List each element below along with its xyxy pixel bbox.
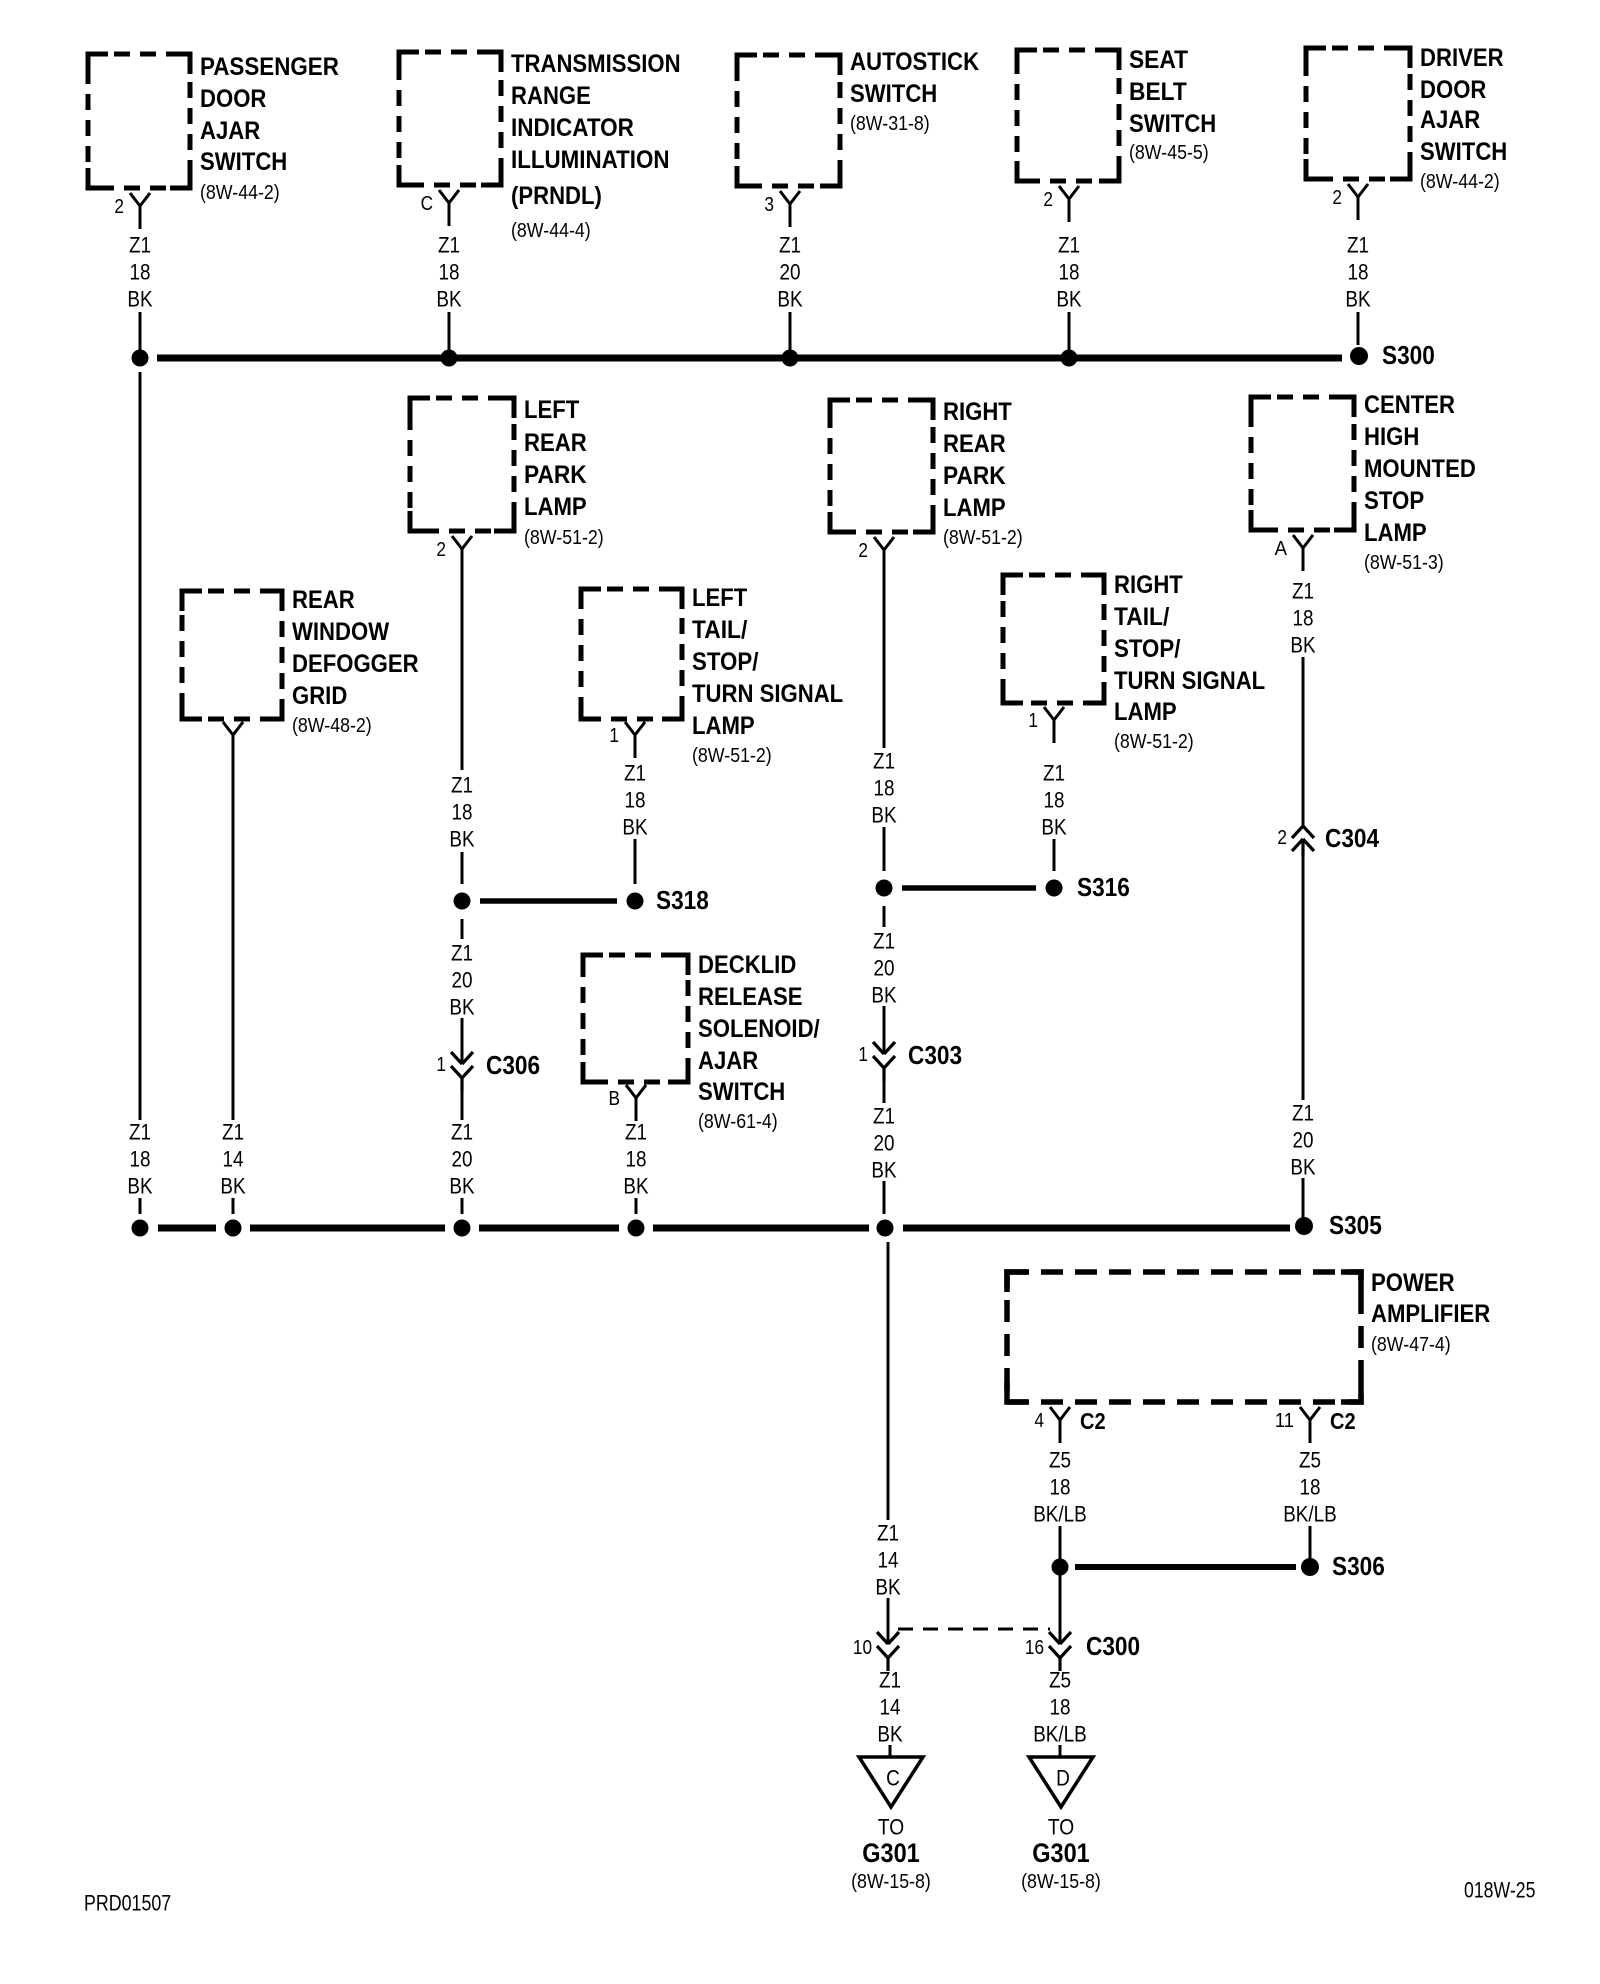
svg-text:AJAR: AJAR [698,1047,758,1075]
svg-text:TURN SIGNAL: TURN SIGNAL [692,680,843,708]
svg-text:AMPLIFIER: AMPLIFIER [1371,1300,1490,1328]
svg-text:20: 20 [874,956,895,981]
svg-text:LAMP: LAMP [943,494,1006,522]
svg-text:(8W-47-4): (8W-47-4) [1371,1334,1451,1356]
svg-text:Z1: Z1 [873,1104,895,1129]
svg-text:18: 18 [1050,1695,1071,1720]
svg-text:BK: BK [1056,287,1081,312]
svg-text:S318: S318 [656,885,709,915]
svg-text:(8W-15-8): (8W-15-8) [1021,1871,1101,1893]
svg-text:WINDOW: WINDOW [292,618,389,646]
svg-text:S316: S316 [1077,872,1130,902]
svg-text:STOP/: STOP/ [692,648,758,676]
svg-text:TO: TO [878,1815,904,1840]
svg-text:C306: C306 [486,1050,540,1080]
svg-text:REAR: REAR [292,586,355,614]
svg-text:4: 4 [1034,1410,1044,1432]
svg-text:TAIL/: TAIL/ [692,616,747,644]
svg-text:(8W-15-8): (8W-15-8) [851,1871,931,1893]
svg-text:18: 18 [1293,606,1314,631]
svg-text:Z1: Z1 [873,749,895,774]
svg-text:AJAR: AJAR [1420,106,1480,134]
svg-text:BK: BK [449,995,474,1020]
svg-text:18: 18 [1300,1475,1321,1500]
svg-text:20: 20 [452,968,473,993]
svg-text:2: 2 [858,540,868,562]
svg-text:(8W-31-8): (8W-31-8) [850,113,930,135]
svg-text:14: 14 [878,1548,899,1573]
svg-text:(8W-51-2): (8W-51-2) [524,527,604,549]
svg-text:1: 1 [436,1054,446,1076]
svg-text:Z1: Z1 [129,1120,151,1145]
svg-text:BK: BK [623,1174,648,1199]
svg-text:LAMP: LAMP [1364,519,1427,547]
svg-text:20: 20 [452,1147,473,1172]
svg-text:C2: C2 [1080,1408,1106,1434]
svg-text:BK: BK [875,1575,900,1600]
svg-text:BK: BK [449,1174,474,1199]
svg-text:CENTER: CENTER [1364,391,1455,419]
svg-text:(8W-48-2): (8W-48-2) [292,715,372,737]
svg-text:C303: C303 [908,1040,962,1070]
svg-text:GRID: GRID [292,682,347,710]
svg-text:BK: BK [127,1174,152,1199]
svg-text:Z1: Z1 [1058,233,1080,258]
svg-text:AJAR: AJAR [200,117,260,145]
svg-text:INDICATOR: INDICATOR [511,114,634,142]
svg-text:(8W-44-2): (8W-44-2) [1420,171,1500,193]
svg-text:Z1: Z1 [1292,579,1314,604]
svg-text:2: 2 [1332,187,1342,209]
svg-text:LEFT: LEFT [524,396,579,424]
svg-text:18: 18 [1348,260,1369,285]
svg-text:20: 20 [874,1131,895,1156]
svg-text:BK/LB: BK/LB [1033,1722,1087,1747]
svg-text:SOLENOID/: SOLENOID/ [698,1015,820,1043]
svg-text:REAR: REAR [524,429,587,457]
svg-text:BK/LB: BK/LB [1033,1502,1087,1527]
svg-text:20: 20 [1293,1128,1314,1153]
svg-text:BELT: BELT [1129,78,1187,106]
svg-text:TURN SIGNAL: TURN SIGNAL [1114,667,1265,695]
svg-text:LAMP: LAMP [1114,698,1177,726]
svg-text:14: 14 [880,1695,901,1720]
svg-text:SWITCH: SWITCH [1420,138,1507,166]
svg-text:C300: C300 [1086,1631,1140,1661]
svg-text:1: 1 [858,1044,868,1066]
svg-text:SWITCH: SWITCH [1129,110,1216,138]
svg-text:TRANSMISSION: TRANSMISSION [511,50,681,78]
svg-text:SWITCH: SWITCH [850,80,937,108]
svg-text:HIGH: HIGH [1364,423,1419,451]
svg-text:D: D [1056,1766,1070,1791]
svg-text:ILLUMINATION: ILLUMINATION [511,146,670,174]
svg-text:PRD01507: PRD01507 [84,1891,171,1916]
svg-text:BK: BK [436,287,461,312]
svg-text:20: 20 [780,260,801,285]
svg-text:(8W-45-5): (8W-45-5) [1129,142,1209,164]
svg-text:18: 18 [625,788,646,813]
svg-text:REAR: REAR [943,430,1006,458]
svg-text:Z1: Z1 [873,929,895,954]
svg-text:BK: BK [777,287,802,312]
svg-text:11: 11 [1275,1410,1294,1432]
svg-text:Z5: Z5 [1049,1668,1071,1693]
svg-text:BK: BK [127,287,152,312]
svg-text:POWER: POWER [1371,1269,1455,1297]
svg-text:Z5: Z5 [1299,1448,1321,1473]
svg-text:(8W-51-2): (8W-51-2) [943,527,1023,549]
svg-text:(8W-51-2): (8W-51-2) [1114,731,1194,753]
svg-text:C: C [421,193,433,215]
svg-text:BK: BK [871,983,896,1008]
svg-text:2: 2 [436,539,446,561]
svg-text:S306: S306 [1332,1551,1385,1581]
svg-text:Z1: Z1 [624,761,646,786]
svg-text:B: B [609,1088,621,1110]
svg-text:DOOR: DOOR [1420,76,1486,104]
svg-text:LAMP: LAMP [692,712,755,740]
svg-text:(8W-44-2): (8W-44-2) [200,182,280,204]
svg-text:18: 18 [130,1147,151,1172]
svg-text:BK: BK [220,1174,245,1199]
svg-text:DECKLID: DECKLID [698,951,796,979]
svg-text:Z1: Z1 [451,1120,473,1145]
svg-text:18: 18 [452,800,473,825]
svg-text:SEAT: SEAT [1129,46,1188,74]
svg-text:2: 2 [114,196,124,218]
svg-text:2: 2 [1277,827,1287,849]
svg-text:BK: BK [877,1722,902,1747]
svg-text:18: 18 [1050,1475,1071,1500]
svg-text:(8W-61-4): (8W-61-4) [698,1111,778,1133]
svg-text:Z1: Z1 [879,1668,901,1693]
svg-text:1: 1 [609,725,619,747]
svg-text:BK: BK [1345,287,1370,312]
svg-text:LAMP: LAMP [524,493,587,521]
svg-text:LEFT: LEFT [692,584,747,612]
svg-text:PASSENGER: PASSENGER [200,53,339,81]
svg-text:Z1: Z1 [877,1521,899,1546]
svg-text:Z1: Z1 [222,1120,244,1145]
svg-text:10: 10 [853,1637,872,1659]
svg-text:018W-25: 018W-25 [1464,1878,1535,1903]
svg-text:A: A [1275,538,1288,560]
svg-text:RIGHT: RIGHT [1114,571,1183,599]
svg-text:Z1: Z1 [625,1120,647,1145]
svg-text:(8W-51-3): (8W-51-3) [1364,552,1444,574]
svg-text:18: 18 [874,776,895,801]
svg-text:16: 16 [1025,1637,1044,1659]
svg-text:Z1: Z1 [1347,233,1369,258]
svg-text:BK: BK [871,1158,896,1183]
svg-text:G301: G301 [1032,1838,1090,1868]
svg-text:SWITCH: SWITCH [698,1078,785,1106]
svg-text:Z1: Z1 [779,233,801,258]
svg-text:PARK: PARK [943,462,1006,490]
svg-text:18: 18 [130,260,151,285]
svg-text:RIGHT: RIGHT [943,398,1012,426]
svg-text:1: 1 [1028,710,1038,732]
svg-text:(PRNDL): (PRNDL) [511,182,602,210]
svg-text:Z1: Z1 [129,233,151,258]
svg-text:S300: S300 [1382,340,1435,370]
svg-text:(8W-51-2): (8W-51-2) [692,745,772,767]
svg-text:18: 18 [626,1147,647,1172]
svg-text:TAIL/: TAIL/ [1114,603,1169,631]
svg-text:18: 18 [439,260,460,285]
svg-text:DEFOGGER: DEFOGGER [292,650,419,678]
svg-text:STOP: STOP [1364,487,1424,515]
svg-text:C304: C304 [1325,823,1380,853]
svg-text:Z5: Z5 [1049,1448,1071,1473]
svg-text:STOP/: STOP/ [1114,635,1180,663]
svg-text:PARK: PARK [524,461,587,489]
svg-text:TO: TO [1048,1815,1074,1840]
svg-text:S305: S305 [1329,1210,1382,1240]
svg-text:RANGE: RANGE [511,82,591,110]
svg-text:AUTOSTICK: AUTOSTICK [850,48,979,76]
svg-text:Z1: Z1 [451,773,473,798]
svg-text:BK: BK [1290,633,1315,658]
svg-text:Z1: Z1 [451,941,473,966]
svg-text:BK: BK [871,803,896,828]
svg-text:BK: BK [1290,1155,1315,1180]
svg-text:BK: BK [1041,815,1066,840]
svg-text:C2: C2 [1330,1408,1356,1434]
svg-text:RELEASE: RELEASE [698,983,803,1011]
svg-text:18: 18 [1044,788,1065,813]
svg-text:18: 18 [1059,260,1080,285]
svg-text:C: C [886,1766,900,1791]
svg-text:2: 2 [1043,189,1053,211]
svg-text:BK: BK [449,827,474,852]
svg-text:BK/LB: BK/LB [1283,1502,1337,1527]
svg-text:DOOR: DOOR [200,85,266,113]
svg-text:DRIVER: DRIVER [1420,44,1504,72]
svg-text:SWITCH: SWITCH [200,148,287,176]
svg-text:3: 3 [764,194,774,216]
svg-text:Z1: Z1 [438,233,460,258]
svg-text:(8W-44-4): (8W-44-4) [511,220,591,242]
svg-text:BK: BK [622,815,647,840]
svg-text:MOUNTED: MOUNTED [1364,455,1476,483]
svg-text:Z1: Z1 [1043,761,1065,786]
svg-text:14: 14 [223,1147,244,1172]
svg-text:Z1: Z1 [1292,1101,1314,1126]
svg-text:G301: G301 [862,1838,920,1868]
